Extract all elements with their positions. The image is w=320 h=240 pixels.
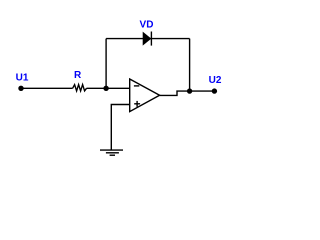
wire node A to op-amp inverting input <box>106 87 130 89</box>
svg-text:R: R <box>74 70 82 81</box>
wire feedback top (anode side) <box>106 38 190 40</box>
svg-text:VD: VD <box>140 20 154 31</box>
op-amp U1A triangle <box>130 79 160 112</box>
svg-text:U2: U2 <box>209 75 222 86</box>
node A junction <box>103 86 108 91</box>
terminal U1 <box>18 86 23 91</box>
ground <box>100 150 123 155</box>
wire feedback right vertical to node B <box>189 39 191 92</box>
resistor R <box>73 85 87 91</box>
wire resistor R to node A <box>87 87 107 89</box>
wire node B to terminal U2 <box>190 90 215 92</box>
wire op-amp noninverting input <box>111 105 129 150</box>
node B junction <box>187 88 192 93</box>
wire op-amp output to node B <box>160 91 190 95</box>
wire U1 to resistor R <box>21 87 73 89</box>
wire node A up to feedback branch <box>105 39 107 89</box>
diode VD <box>143 32 151 46</box>
svg-text:U1: U1 <box>16 73 29 84</box>
terminal U2 <box>212 88 217 93</box>
